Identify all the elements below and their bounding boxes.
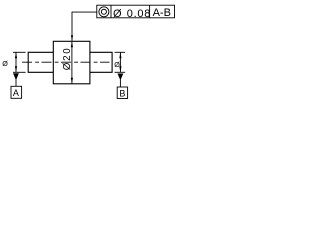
Ø20 dimension line (vertical, inside large cylinder): [71, 42, 73, 84]
concentricity symbol outer circle: [99, 7, 109, 17]
right dim arrow up: [119, 52, 121, 58]
datum A box: [11, 86, 22, 98]
svg-text:0.08: 0.08: [127, 8, 151, 20]
large cylinder body (Ø20): [53, 41, 90, 84]
svg-text:Ø20: Ø20: [62, 47, 73, 71]
svg-text:B: B: [119, 88, 125, 98]
left dim arrow down: [15, 66, 17, 72]
feature control frame border: [97, 5, 175, 18]
extension line top-left: [13, 51, 26, 53]
extension line bottom-right: [115, 71, 126, 73]
svg-text:A: A: [13, 88, 19, 98]
left diameter dimension line: [15, 53, 17, 73]
svg-text:Ø: Ø: [114, 60, 120, 69]
svg-text:Ø: Ø: [2, 59, 8, 68]
Ø20 arrow down: [71, 78, 73, 84]
concentricity symbol inner circle: [101, 9, 106, 14]
frame divider 2: [149, 5, 151, 18]
datum B leader: [119, 80, 121, 88]
datum A leader: [15, 80, 17, 87]
frame divider 1: [110, 5, 112, 18]
datum A triangle (left): [13, 73, 19, 80]
svg-text:Ø: Ø: [113, 8, 122, 20]
leader arrow down: [71, 35, 73, 41]
centerline (shaft axis, dash-dot): [22, 61, 110, 63]
extension line top-right: [115, 51, 126, 53]
left dim arrow up: [15, 52, 17, 58]
svg-text:A-B: A-B: [153, 7, 171, 19]
leader line from tolerance frame to cylinder: [72, 12, 97, 41]
datum B box: [117, 87, 127, 99]
right dim arrow down: [119, 66, 121, 72]
Ø20 arrow up: [71, 41, 73, 47]
datum B triangle (right): [118, 74, 124, 81]
left shaft journal (datum feature A): [28, 52, 53, 72]
right diameter dimension line: [119, 53, 121, 73]
extension line bottom-left: [13, 71, 26, 73]
right shaft journal (datum feature B): [90, 52, 112, 72]
